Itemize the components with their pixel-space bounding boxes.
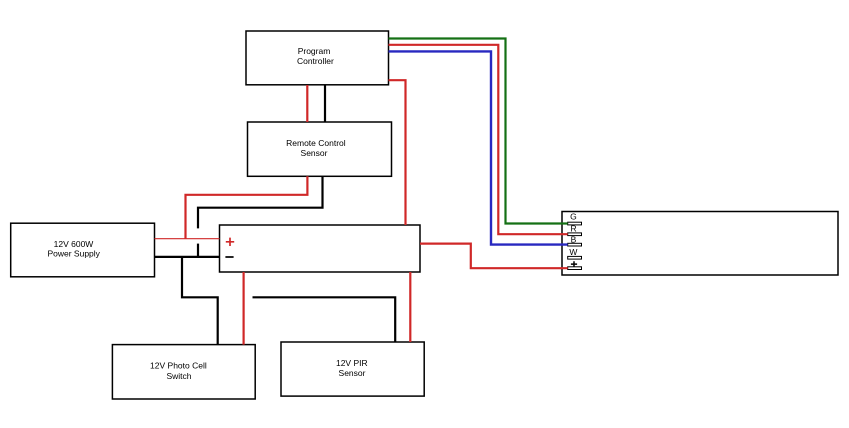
wire red: driver to PIR sensor	[409, 272, 411, 342]
svg-text:Sensor: Sensor	[339, 368, 366, 378]
remote control sensor box U2	[248, 122, 392, 176]
label 12V Photo Cell Switch	[150, 361, 207, 381]
wire black: minus net down to photo cell	[182, 257, 218, 345]
minus symbol on U3	[225, 256, 233, 258]
svg-text:W: W	[569, 247, 577, 257]
wire black: minus net to PIR sensor	[253, 297, 396, 342]
svg-text:12V Photo Cell: 12V Photo Cell	[150, 361, 207, 371]
svg-text:12V PIR: 12V PIR	[336, 358, 368, 368]
program controller box U1	[246, 31, 389, 85]
svg-text:Switch: Switch	[166, 371, 191, 381]
label 12V 600W Power Supply	[47, 239, 100, 259]
wire red thin: power supply plus to driver	[155, 238, 220, 240]
svg-text:Remote Control: Remote Control	[286, 138, 346, 148]
photo cell switch box S1	[112, 345, 255, 399]
plus symbol on U3	[226, 238, 234, 246]
label Remote Control Sensor	[286, 138, 346, 158]
svg-text:G: G	[570, 212, 577, 222]
svg-text:12V 600W: 12V 600W	[54, 239, 94, 249]
svg-text:R: R	[571, 224, 577, 234]
terminal +	[568, 261, 582, 269]
terminal R	[568, 224, 582, 236]
wire red: controller to remote sensor	[306, 85, 308, 122]
wire red R: controller to terminal R	[389, 45, 568, 234]
PIR sensor box S2	[281, 342, 424, 396]
wire black: remote sensor down segment	[198, 176, 323, 228]
svg-text:Sensor: Sensor	[301, 148, 328, 158]
power supply box PS1	[11, 223, 155, 277]
svg-text:Controller: Controller	[297, 56, 334, 66]
wire black: controller to remote sensor	[324, 85, 326, 122]
terminal W	[568, 247, 582, 259]
wire red: driver plus out to terminal +	[420, 244, 568, 269]
wire green G: controller to terminal G	[389, 39, 568, 224]
wire red: controller to driver top	[389, 80, 406, 225]
wire blue B: controller to terminal B	[389, 51, 568, 244]
wire red: driver to photo cell	[243, 272, 245, 345]
terminal G	[568, 212, 582, 225]
terminal B	[568, 235, 582, 247]
wire black: hop continuation to minus net	[197, 244, 199, 257]
label Program Controller	[297, 46, 334, 66]
controller/driver box U3	[220, 225, 421, 272]
LED strip box LS1	[562, 212, 838, 276]
svg-text:Power Supply: Power Supply	[47, 248, 100, 258]
svg-text:Program: Program	[298, 46, 331, 56]
wire red: remote sensor to plus net	[186, 176, 308, 238]
wire black: power supply minus to driver	[155, 256, 220, 258]
label 12V PIR Sensor	[336, 358, 368, 378]
